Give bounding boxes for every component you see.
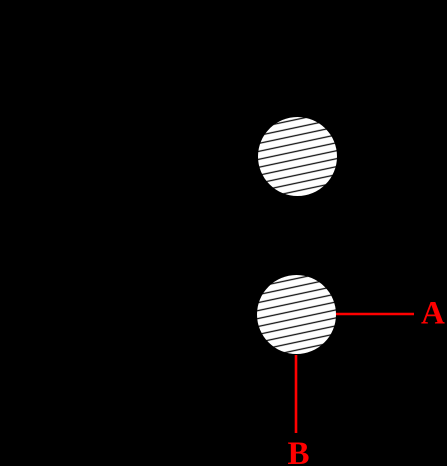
wire A (red horizontal cord) — [336, 313, 414, 316]
svg-text:A: A — [421, 296, 445, 332]
pulley circle lower — [257, 275, 336, 354]
pulley circle upper — [258, 117, 337, 196]
svg-text:B: B — [288, 436, 310, 466]
wire B (red vertical cord) — [295, 355, 298, 433]
